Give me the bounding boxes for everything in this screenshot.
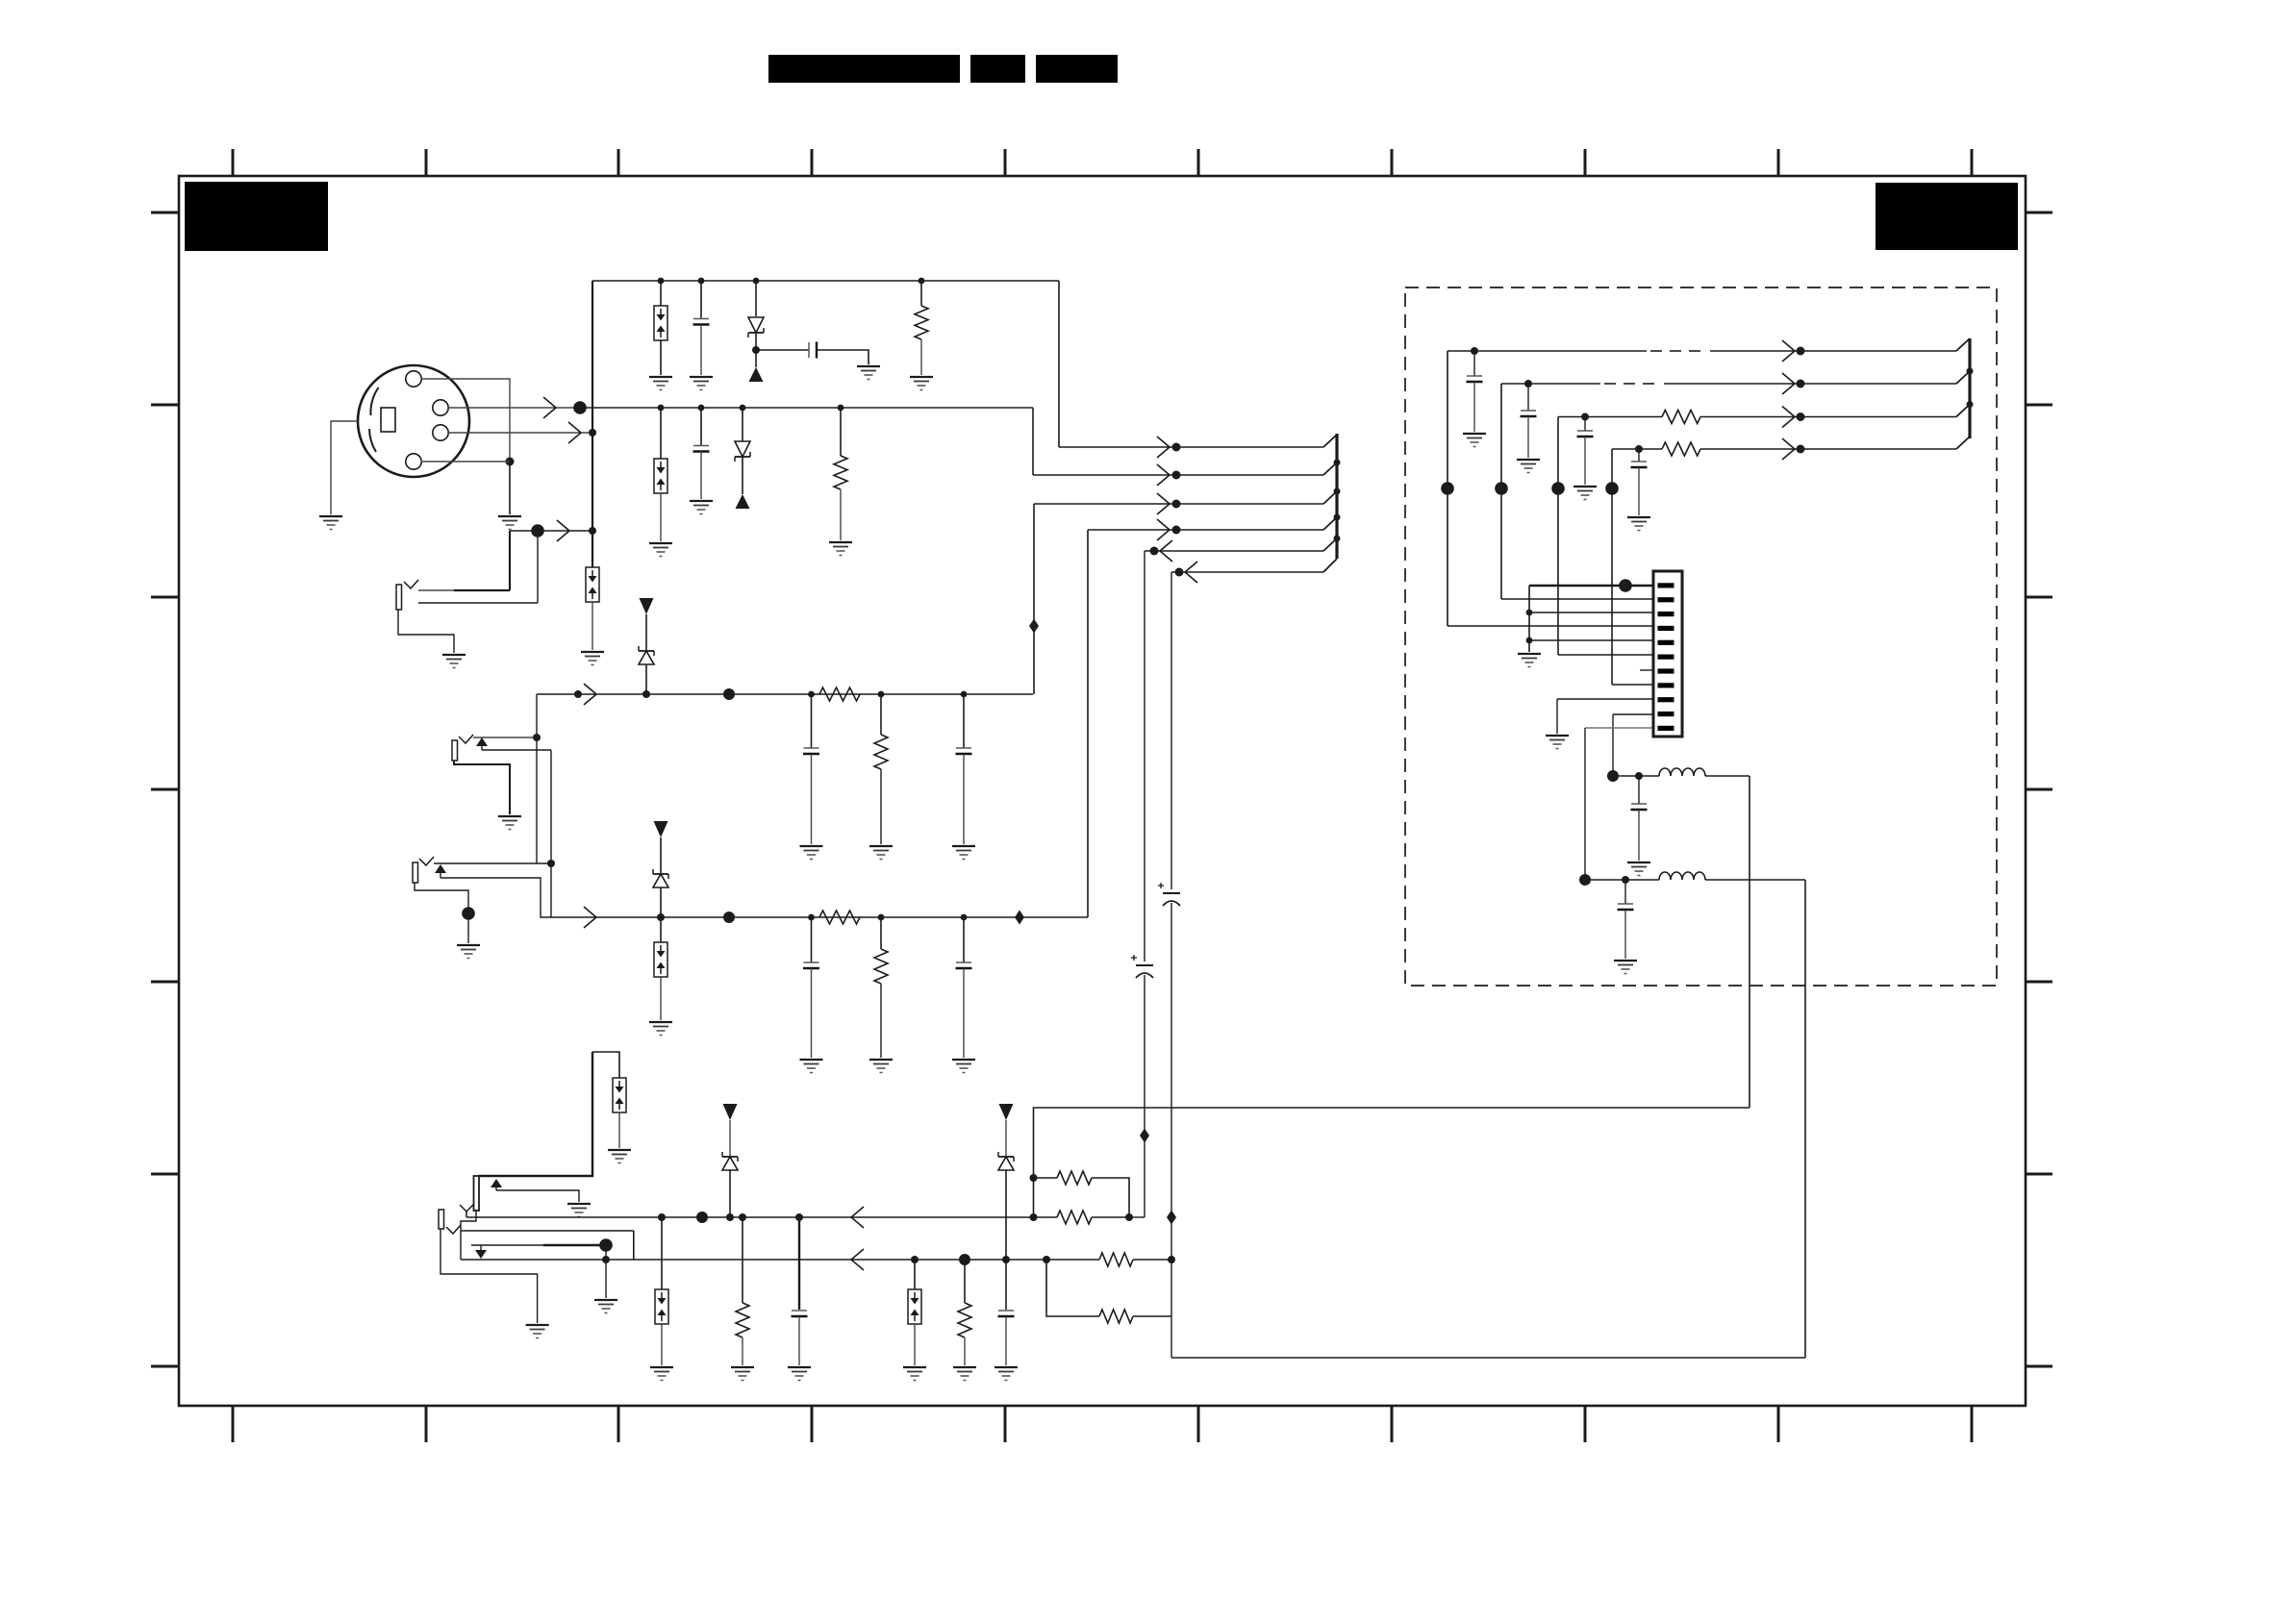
wire L1 out xyxy=(1705,775,1750,777)
ground R2 xyxy=(829,542,852,556)
bundle diag dw3 xyxy=(1956,405,1970,417)
wire dw4 xyxy=(1612,448,1662,450)
capacitor C17 lead xyxy=(1624,880,1626,904)
varistor RV5 lead xyxy=(661,1217,663,1289)
ground XLR shell xyxy=(319,516,342,530)
junction rail b1 cap xyxy=(795,1213,803,1221)
capacitor C3 lead xyxy=(700,408,702,445)
wire pin6 lead xyxy=(1558,654,1653,656)
wire dw2 dashes xyxy=(1604,383,1616,385)
ground C3 xyxy=(690,501,713,514)
capacitor C10 lead xyxy=(798,1217,800,1310)
chassis triangle D2 xyxy=(736,494,750,509)
wire J5 tip xyxy=(461,1230,634,1232)
wire w5 to resistor node xyxy=(1129,1216,1145,1218)
resistor R4 lead xyxy=(880,694,882,735)
junction w1 xyxy=(1172,443,1181,452)
zener ZD4 xyxy=(998,1152,1014,1170)
resistor R8 lead xyxy=(964,1260,966,1303)
capacitor C13 xyxy=(1521,411,1537,416)
junction dw3 xyxy=(1581,413,1589,421)
capacitor C11 xyxy=(998,1311,1015,1316)
junction Vb xyxy=(547,860,555,867)
junction pin1/pin3 xyxy=(506,458,515,466)
node big rail b1 xyxy=(696,1212,708,1223)
wire riser r3 xyxy=(1557,417,1559,656)
wire staple to varistor xyxy=(592,1052,619,1078)
capacitor C11 lead2 xyxy=(1005,1316,1007,1365)
ground RV5 xyxy=(650,1367,673,1381)
wire pin3 lead xyxy=(1529,612,1653,613)
ground J5 sleeve xyxy=(526,1325,549,1338)
junction jack1 ring node xyxy=(531,524,544,537)
wire jack1 to bus xyxy=(510,530,592,532)
ground R6 xyxy=(869,1060,893,1073)
resistor R7 lead2 xyxy=(742,1337,743,1365)
junction J5 drop rail xyxy=(602,1256,610,1263)
diode D1 xyxy=(748,317,764,337)
wire rail1 drop to bundle xyxy=(1058,281,1060,447)
capacitor C6 lead2 xyxy=(811,754,813,844)
capacitor C10 xyxy=(792,1311,808,1316)
resistor R8 lead2 xyxy=(964,1337,966,1365)
wire riser r4 xyxy=(1611,449,1613,685)
junction L2 cap xyxy=(1622,876,1629,884)
wire w3 to bundle xyxy=(1034,503,1323,505)
wire dw1 dashes xyxy=(1650,350,1662,352)
resistor R1 xyxy=(915,306,928,339)
arrow rail m1 xyxy=(584,684,596,705)
junction dots rail2 xyxy=(658,405,844,412)
wire D1 to chassis xyxy=(755,350,757,367)
wire w4 riser xyxy=(1087,530,1089,917)
capacitor C16 lead xyxy=(1638,776,1640,804)
wire dw1 xyxy=(1448,350,1647,352)
ground pin9 xyxy=(1546,736,1569,749)
zener ZD4 wire xyxy=(1005,1120,1007,1157)
off-page diamond w5 xyxy=(1140,1129,1149,1143)
varistor RV1 lead xyxy=(660,281,662,306)
off-page diamond w6 xyxy=(1167,1211,1176,1225)
off-page diamond w3 xyxy=(1029,619,1039,634)
ground RV2 xyxy=(649,543,672,557)
wire w1 to bundle xyxy=(1059,446,1323,448)
capacitor C3 lead2 xyxy=(700,452,702,500)
dashed boundary box xyxy=(1405,287,1997,986)
junction w3 bar xyxy=(1334,488,1341,495)
jack J1b body xyxy=(396,585,402,610)
wire J3 sleeve ground xyxy=(467,913,469,943)
wire ground bus xyxy=(1528,586,1530,652)
capacitor C8 xyxy=(803,962,819,968)
capacitor C15 lead xyxy=(1638,449,1640,462)
ground C17 xyxy=(1614,961,1637,974)
node big rail m1 xyxy=(723,688,735,700)
off-page triangle ZD2 xyxy=(654,821,668,837)
node riser r4 xyxy=(1605,482,1619,495)
cable bundle bus bar 2 xyxy=(1968,338,1971,438)
resistor R10 xyxy=(1057,1211,1092,1224)
capacitor C1 xyxy=(693,319,710,325)
junction rail b2 drop xyxy=(1043,1256,1050,1263)
capacitor C14 lead2 xyxy=(1584,437,1586,485)
wire w2 to bundle xyxy=(1033,474,1323,476)
junction w2 bar xyxy=(1334,460,1341,466)
wire pin5 lead xyxy=(1529,639,1653,641)
wire pin7 stub xyxy=(1640,669,1653,671)
junction dw1 xyxy=(1471,347,1478,355)
bundle diag dw1 xyxy=(1956,338,1970,351)
wire J3 sleeve xyxy=(415,883,468,912)
junction w6 rail xyxy=(1168,1256,1175,1263)
wire pin2 lead xyxy=(1501,598,1653,600)
wire dw2 xyxy=(1501,383,1600,385)
junction dots rail1 xyxy=(658,278,925,285)
wire J5 sleeve xyxy=(441,1229,538,1323)
wire pin4 lead xyxy=(1448,625,1653,627)
varistor RV6 xyxy=(908,1289,921,1324)
connector J1 insert square xyxy=(381,408,395,432)
capacitor C9 xyxy=(956,962,972,968)
wire w6 drop upper xyxy=(1171,572,1172,889)
capacitor C9 lead2 xyxy=(963,968,965,1058)
wire jack1 tip riser xyxy=(509,531,511,590)
resistor R14 xyxy=(1662,442,1700,456)
wire L1 lead xyxy=(1613,775,1659,777)
capacitor C6 lead xyxy=(811,694,813,748)
zener ZD4 lead xyxy=(1005,1170,1007,1260)
wire bottom rail 2 xyxy=(461,1259,1046,1261)
ground J1b xyxy=(442,655,466,668)
wire feedback L1 horizontal xyxy=(1034,1108,1750,1217)
junction w4 xyxy=(1172,526,1181,535)
connector J6 header body xyxy=(1653,571,1682,737)
varistor RV5 lead2 xyxy=(661,1324,663,1365)
junction dw2 arrow xyxy=(1797,380,1805,388)
resistor R5 series xyxy=(819,911,860,924)
capacitor C1 lead xyxy=(700,281,702,318)
capacitor C11 lead xyxy=(1005,1260,1007,1310)
wire w4 to bundle xyxy=(1088,529,1323,531)
ground XLR pins xyxy=(498,516,521,530)
arrow dw2 xyxy=(1782,373,1795,394)
ground C9 xyxy=(952,1060,975,1073)
junction w5 xyxy=(1150,547,1159,556)
varistor RV7 lead xyxy=(592,602,593,650)
capacitor C16 xyxy=(1631,804,1648,810)
ground R7 xyxy=(731,1367,754,1381)
ground C11 xyxy=(994,1367,1018,1381)
zener ZD4 triangle xyxy=(999,1104,1014,1120)
junction rail m1 c xyxy=(961,691,968,698)
arrow w6 xyxy=(1185,562,1197,583)
junction dw4 arrow xyxy=(1797,445,1805,454)
wire J4 ring xyxy=(496,1190,579,1202)
wire riser r1 xyxy=(1447,351,1448,626)
node riser r3 xyxy=(1551,482,1565,495)
wire pin3 to node xyxy=(421,379,510,462)
resistor R6 lead2 xyxy=(880,984,882,1058)
wire bottom rail 1 xyxy=(466,1216,1034,1218)
wire node to ground xyxy=(509,462,511,514)
zener ZD2 xyxy=(653,869,668,887)
junction rail m2 a xyxy=(808,914,815,921)
ground C2 xyxy=(857,366,880,380)
connector J1 pin 2 xyxy=(433,400,448,415)
junction gbus a xyxy=(1526,610,1533,616)
node big rail b2 xyxy=(959,1254,970,1265)
junction rail b1 res xyxy=(739,1213,746,1221)
ground RV6 xyxy=(903,1367,926,1381)
wire J4 sleeve xyxy=(461,1211,476,1260)
wire pin1 out xyxy=(448,432,591,434)
capacitor C7 lead2 xyxy=(963,754,965,844)
frame right tick marks xyxy=(2026,212,2052,1366)
ground RV1 xyxy=(649,377,672,390)
junction w2 xyxy=(1172,471,1181,480)
junction w3 xyxy=(1172,500,1181,509)
junction w6 xyxy=(1175,568,1184,577)
wire pin1 to node xyxy=(421,461,510,462)
ground connector bus xyxy=(1518,654,1541,667)
varistor RV1 lead2 xyxy=(660,340,662,375)
junction J2 tip xyxy=(533,734,541,741)
ground RV7 xyxy=(581,652,604,665)
junction rail b1 zener xyxy=(726,1213,734,1221)
junction D1 node xyxy=(752,346,760,354)
resistor R8 xyxy=(958,1303,971,1337)
connector J1 XLR body xyxy=(358,365,469,477)
arrow pin1 wire xyxy=(568,422,581,443)
wire L2 lead xyxy=(1585,879,1659,881)
jack J3 switch arrow xyxy=(435,864,446,873)
jack J5 body xyxy=(439,1210,444,1229)
capacitor C3 xyxy=(693,446,710,452)
resistor R6 lead xyxy=(880,917,882,949)
ground C14 xyxy=(1573,487,1597,500)
capacitor C6 xyxy=(803,748,819,754)
ground C13 xyxy=(1517,460,1540,473)
jack J4 tip contact xyxy=(460,1204,474,1212)
varistor RV1 xyxy=(654,306,667,340)
junction rail b2 zener xyxy=(1002,1256,1010,1263)
wire J3 tip xyxy=(434,862,551,864)
varistor RV6 lead2 xyxy=(914,1324,916,1365)
title block redaction 2 xyxy=(970,55,1025,83)
wire J2 sleeve xyxy=(454,761,510,814)
varistor RV2 xyxy=(654,459,667,493)
jack J4 switch arrow xyxy=(491,1179,502,1187)
node A big junction xyxy=(573,401,587,414)
capacitor C12 xyxy=(1467,376,1483,382)
wire pin2 out xyxy=(448,407,578,409)
inductor L1 xyxy=(1659,768,1705,776)
ground C8 xyxy=(800,1060,823,1073)
capacitor C7 lead xyxy=(963,694,965,748)
resistor R11 series xyxy=(1099,1253,1133,1266)
junction dw2 xyxy=(1524,380,1532,387)
zener ZD3 triangle xyxy=(723,1104,738,1120)
wire thick drop to jack4 xyxy=(478,1052,592,1176)
arrow w1 xyxy=(1157,437,1170,458)
inductor L2 xyxy=(1659,872,1705,880)
resistor R4 lead2 xyxy=(880,769,882,844)
wire w5 drop upper xyxy=(1144,551,1145,962)
wire L2 out xyxy=(1705,879,1805,881)
capacitor C12 lead xyxy=(1473,351,1475,376)
corner label box top-left xyxy=(185,182,328,251)
capacitor C14 lead xyxy=(1584,417,1586,432)
arrow w2 xyxy=(1157,464,1170,486)
capacitor C15 xyxy=(1631,462,1648,467)
varistor RV2 lead2 xyxy=(660,493,662,541)
wire J1b sleeve xyxy=(398,610,454,653)
ground J4 ring xyxy=(567,1204,591,1217)
connector J6 pins xyxy=(1658,583,1674,731)
junction bus2 b xyxy=(1967,401,1974,408)
chassis triangle D1 xyxy=(749,367,764,382)
capacitor C14 xyxy=(1577,431,1594,437)
connector J1 pin 3 xyxy=(406,371,421,387)
varistor RV5 xyxy=(655,1289,668,1324)
wire middle rail 2 xyxy=(551,916,1088,918)
capacitor C8 lead2 xyxy=(811,968,813,1058)
capacitor C17 lead2 xyxy=(1624,910,1626,959)
node J5 ring xyxy=(599,1238,613,1252)
ground C16 xyxy=(1627,862,1650,876)
wire D2 to chassis xyxy=(742,457,743,494)
capacitor C10 lead2 xyxy=(798,1316,800,1365)
resistor R1 lead2 xyxy=(920,339,922,375)
junction rail m2 c xyxy=(961,914,968,921)
wire Vb riser xyxy=(550,750,552,917)
jack J1b ring riser xyxy=(537,531,539,603)
node riser r2 xyxy=(1495,482,1508,495)
wire ZD1 to arrow xyxy=(645,614,647,651)
arrow w5 xyxy=(1160,540,1172,562)
resistor R7 xyxy=(736,1303,749,1337)
resistor R3 series xyxy=(819,687,860,701)
ground C1 xyxy=(690,377,713,390)
ground RV3 xyxy=(649,1022,672,1036)
corner label box top-right xyxy=(1876,183,2018,250)
node L2 input xyxy=(1579,874,1591,886)
capacitor C7 xyxy=(956,748,972,754)
wire pin10 lead xyxy=(1613,713,1653,715)
wire J2 tip xyxy=(473,737,537,738)
ground C7 xyxy=(952,846,975,860)
zener ZD2 lead xyxy=(660,887,662,917)
wire J1b ring xyxy=(418,602,538,604)
junction w4 bar xyxy=(1334,514,1341,521)
junction pin1 bus xyxy=(589,429,596,437)
resistor R2 xyxy=(834,456,847,489)
junction rail m2 b xyxy=(878,914,885,921)
node J3 sleeve xyxy=(462,907,475,920)
ground J3 xyxy=(457,945,480,959)
capacitor C13 lead2 xyxy=(1527,416,1529,458)
jack J2 tip contact xyxy=(459,735,473,743)
junction bus2 a xyxy=(1967,368,1974,375)
resistor R1 lead xyxy=(920,281,922,306)
resistor R2 lead2 xyxy=(840,489,842,540)
junction bus-jack wire xyxy=(589,527,596,535)
capacitor C2 series xyxy=(809,342,817,359)
wire w6 drop lower xyxy=(1171,903,1172,1358)
off-page diamond rail m2 xyxy=(1015,911,1024,925)
varistor RV4 xyxy=(613,1078,626,1112)
wire C2 to ground drop xyxy=(817,350,869,364)
wire w5 to bundle xyxy=(1145,550,1323,552)
wire feedback L2 horizontal xyxy=(1171,1357,1805,1359)
connector J1 pin 1 xyxy=(433,425,448,440)
cable bundle bus bar xyxy=(1335,434,1338,559)
wire ZD2 to arrow xyxy=(660,837,662,874)
capacitor C8 lead xyxy=(811,917,813,962)
wire pin1 lead thick xyxy=(1529,585,1653,587)
wire w6 to bundle xyxy=(1171,571,1323,573)
arrow dw3 xyxy=(1782,407,1795,428)
jack J2 switch arrow xyxy=(476,737,488,746)
varistor RV3 xyxy=(654,942,667,977)
wire rail2 drop to bundle xyxy=(1032,408,1034,475)
junction rail b2 fuse2 xyxy=(911,1256,919,1263)
jack J2 body xyxy=(452,740,458,761)
zener ZD3 lead xyxy=(729,1170,731,1217)
capacitor C1 lead2 xyxy=(700,325,702,376)
varistor RV6 lead xyxy=(914,1260,916,1289)
zener ZD3 wire xyxy=(729,1120,731,1157)
connector J1 keyway arc xyxy=(370,387,378,415)
ground J5 ring xyxy=(594,1300,617,1313)
diode D1 lead xyxy=(755,281,757,316)
connector J1 shell pin xyxy=(406,454,421,469)
ground C12 xyxy=(1463,434,1486,447)
wire main vertical bus xyxy=(592,281,593,567)
diode D2 lead xyxy=(742,408,743,441)
arrow pin2 wire xyxy=(543,397,556,418)
varistor RV4 lead xyxy=(618,1112,620,1148)
capacitor C5 electrolytic xyxy=(1158,883,1180,906)
jack J1b tip contact xyxy=(404,580,418,588)
resistor R4 xyxy=(874,735,888,769)
junction gbus b xyxy=(1526,637,1533,644)
ground R4 xyxy=(869,846,893,860)
junction rail m1 a xyxy=(808,691,815,698)
wire J3 ring xyxy=(441,878,551,917)
wire J5 ring drop xyxy=(605,1245,607,1298)
ground C10 xyxy=(788,1367,811,1381)
resistor R9 xyxy=(1057,1171,1092,1185)
junction fuse col m2 xyxy=(657,913,665,921)
arrow jack1 wire xyxy=(557,520,569,541)
arrow rail b2 xyxy=(851,1249,864,1270)
resistor R7 lead xyxy=(742,1217,743,1303)
jack J4 body xyxy=(474,1176,480,1211)
resistor R13 xyxy=(1662,411,1700,424)
varistor RV3 lead xyxy=(660,917,662,942)
junction resnode top xyxy=(1030,1174,1038,1182)
wire jack2 riser Va xyxy=(536,694,538,863)
wire riser r2 xyxy=(1500,384,1502,599)
varistor RV7 on bus xyxy=(586,567,599,602)
arrow dw1 xyxy=(1782,340,1795,362)
wire J1b tip xyxy=(418,589,454,591)
arrow w3 xyxy=(1157,493,1170,514)
capacitor C4 electrolytic xyxy=(1131,955,1153,978)
capacitor C15 lead2 xyxy=(1638,467,1640,515)
capacitor C16 lead2 xyxy=(1638,810,1640,861)
